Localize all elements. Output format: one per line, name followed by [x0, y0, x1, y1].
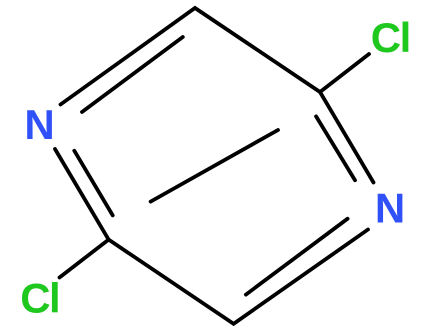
wire: bond C5-Cl top stub [320, 54, 369, 92]
svg-text:N: N [24, 101, 54, 148]
wire: inner line of N4=C3 [246, 219, 348, 295]
svg-text:Cl: Cl [20, 274, 59, 321]
wire: inner line of C5=N4 [316, 116, 355, 180]
wire: central bridge bond [151, 130, 278, 202]
wire: inner line of N1=C6 [82, 37, 183, 112]
wire: bonds N1-C6-C5-N4 (upper perimeter path) [61, 8, 374, 183]
svg-text:Cl: Cl [371, 14, 410, 61]
svg-text:N: N [375, 184, 405, 231]
wire: bonds N4-C3-C2-N1 (lower perimeter path) [55, 149, 368, 324]
wire: inner line of C2=N1 [74, 151, 112, 216]
wire: bond C2-Cl bottom stub [60, 240, 109, 278]
